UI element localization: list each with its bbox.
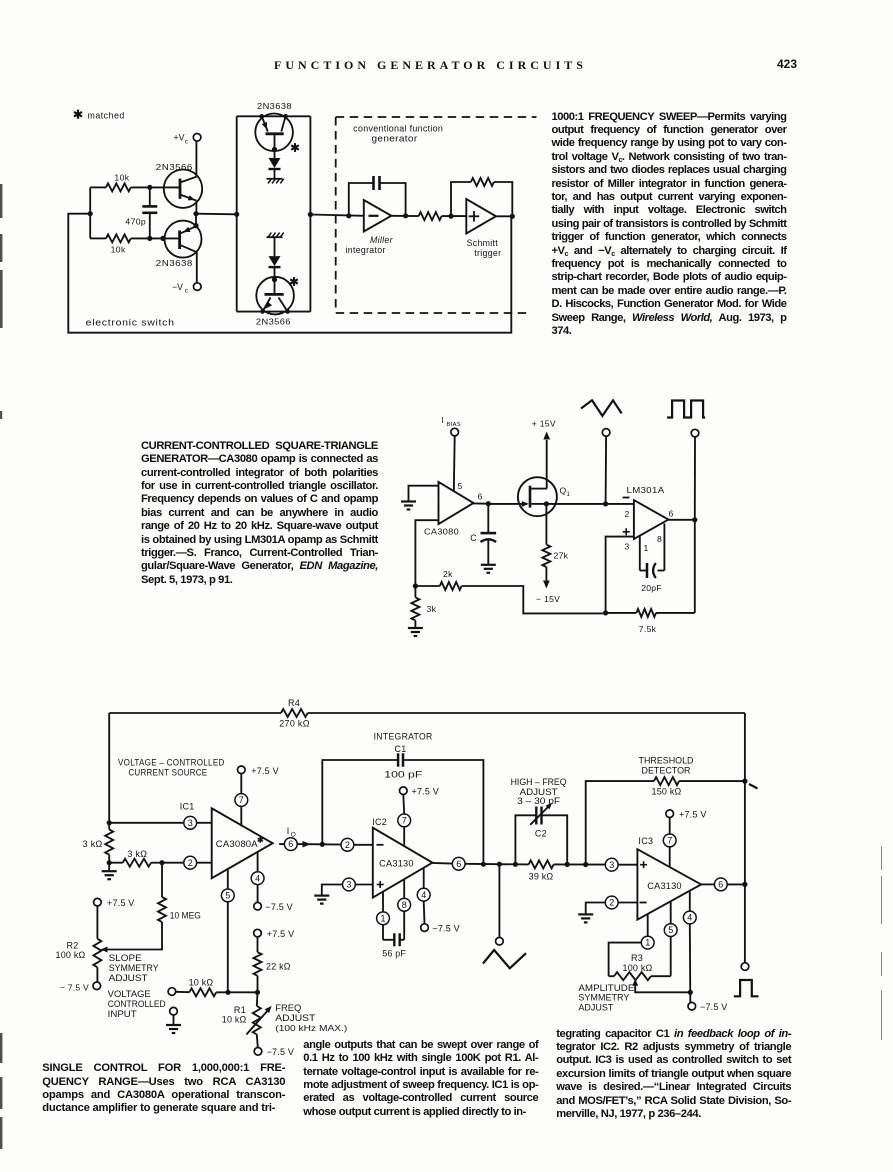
svg-text:22 kΩ: 22 kΩ <box>266 962 291 972</box>
waveform triangle glyph <box>581 400 622 416</box>
resistor 27k <box>545 504 547 545</box>
pin 8 IC2 <box>403 880 405 899</box>
svg-text:2: 2 <box>188 858 193 868</box>
capacitor C <box>487 504 489 533</box>
pin 5 IC1 <box>227 869 229 889</box>
svg-text:1: 1 <box>567 492 571 498</box>
supply +15V arrow <box>543 432 550 440</box>
svg-text:R1: R1 <box>234 1005 246 1015</box>
svg-text:−7.5 V: −7.5 V <box>267 1047 294 1057</box>
svg-text:56 pF: 56 pF <box>382 949 406 959</box>
potentiometer R1 10k freq adjust <box>256 992 259 1006</box>
terminal voltage input <box>168 988 176 996</box>
terminal I BIAS <box>451 428 459 436</box>
svg-text:ADJUST: ADJUST <box>578 1002 613 1012</box>
svg-text:(100 kHz MAX.): (100 kHz MAX.) <box>275 1023 347 1033</box>
svg-text:integrator: integrator <box>346 245 386 255</box>
svg-text:−V: −V <box>172 282 183 292</box>
svg-text:+7.5 V: +7.5 V <box>412 786 439 796</box>
wire pin5 <box>453 436 456 491</box>
svg-text:1: 1 <box>380 913 385 923</box>
transistor Q1 JFET <box>518 477 557 516</box>
svg-text:470p: 470p <box>125 217 146 227</box>
pin 7 IC3 <box>669 818 671 835</box>
svg-text:DETECTOR: DETECTOR <box>642 766 691 776</box>
svg-text:1: 1 <box>645 938 650 948</box>
wire pin3 input <box>606 537 634 613</box>
svg-text:R2: R2 <box>67 941 79 951</box>
svg-text:5: 5 <box>458 481 463 491</box>
svg-text:− 7.5 V: − 7.5 V <box>60 983 89 993</box>
svg-text:generator: generator <box>372 134 418 144</box>
terminal -Vc <box>194 283 202 291</box>
wire to function generator <box>310 215 363 216</box>
svg-text:7: 7 <box>667 836 672 846</box>
terminal -7.5V (R2 bottom) <box>93 982 101 990</box>
svg-text:c: c <box>185 288 189 295</box>
pin 7 IC2 <box>402 795 405 815</box>
svg-text:R4: R4 <box>288 698 300 708</box>
svg-text:HIGH – FREQ: HIGH – FREQ <box>511 777 567 787</box>
svg-text:6: 6 <box>456 859 461 869</box>
svg-text:CURRENT SOURCE: CURRENT SOURCE <box>128 767 207 777</box>
svg-text:matched: matched <box>88 111 125 121</box>
svg-text:6: 6 <box>669 509 674 519</box>
svg-text:+7.5 V: +7.5 V <box>267 929 294 939</box>
resistor interstage <box>391 215 418 217</box>
supply -15V arrow <box>545 567 547 581</box>
svg-text:FREQ: FREQ <box>275 1003 301 1013</box>
svg-text:R3: R3 <box>631 953 643 963</box>
svg-text:10 MEG: 10 MEG <box>170 911 201 921</box>
diode (bottom branch) <box>274 237 276 256</box>
star matched (bottom) <box>293 277 295 286</box>
resistor Schmitt feedback <box>451 182 471 216</box>
ground (IC2 pin3) <box>314 896 329 904</box>
svg-text:5: 5 <box>225 891 230 901</box>
op-amp Miller integrator <box>364 200 392 232</box>
svg-text:Q: Q <box>560 486 567 496</box>
resistor 2k <box>440 582 462 590</box>
svg-text:−7.5 V: −7.5 V <box>265 902 292 912</box>
wire source to LM301A <box>546 503 634 505</box>
pin 1 IC2 <box>382 892 384 912</box>
svg-text:+V: +V <box>174 133 185 143</box>
pin 3 IC1 <box>109 822 184 824</box>
ground (IC3 pin2) <box>578 914 593 922</box>
svg-text:INTEGRATOR: INTEGRATOR <box>374 732 433 742</box>
svg-text:C1: C1 <box>394 744 406 754</box>
wire right rail <box>744 713 746 963</box>
svg-text:I: I <box>442 416 444 425</box>
svg-text:IC2: IC2 <box>372 817 387 827</box>
svg-text:+ 15V: + 15V <box>532 419 556 429</box>
terminal +7.5V (22k) <box>254 929 262 937</box>
label matched note <box>77 110 79 119</box>
svg-text:Miller: Miller <box>370 235 394 245</box>
svg-text:6: 6 <box>288 839 293 849</box>
svg-text:CA3130: CA3130 <box>647 881 682 891</box>
wire diode-branch rectangle <box>237 115 311 117</box>
pin 2 IC1 <box>162 862 184 864</box>
svg-text:O: O <box>291 832 296 839</box>
svg-text:8: 8 <box>402 900 407 910</box>
wire inverting input to ground <box>409 486 439 501</box>
node IO output <box>279 843 284 845</box>
svg-text:3: 3 <box>609 860 614 870</box>
svg-text:2N3638: 2N3638 <box>257 101 292 111</box>
svg-text:INPUT: INPUT <box>108 1009 138 1019</box>
terminal ground stub <box>170 1007 178 1015</box>
pin 4 IC2 <box>423 868 425 888</box>
diode (top branch) <box>274 149 276 158</box>
terminal -7.5V (IC1 pin4) <box>254 902 262 910</box>
pin 7 IC1 <box>240 774 242 794</box>
svg-text:3: 3 <box>346 880 351 890</box>
node base-divider junction <box>88 211 93 216</box>
svg-text:150 kΩ: 150 kΩ <box>652 787 682 797</box>
terminal triangle output (IC2) <box>498 864 500 937</box>
terminal +7.5V (IC1 pin7) <box>238 766 246 774</box>
svg-text:conventional function: conventional function <box>353 124 443 134</box>
svg-text:BIAS: BIAS <box>447 422 461 428</box>
potentiometer R3 100k <box>609 975 614 977</box>
svg-text:100 kΩ: 100 kΩ <box>623 963 653 973</box>
op-amp IC2 CA3130 <box>373 828 433 898</box>
svg-text:ADJUST: ADJUST <box>275 1013 316 1023</box>
svg-text:− 15V: − 15V <box>536 594 560 604</box>
svg-text:Schmitt: Schmitt <box>467 238 499 248</box>
svg-text:SLOPE: SLOPE <box>109 953 142 963</box>
wire IC2 output run <box>499 863 528 865</box>
terminal square output <box>691 429 699 437</box>
svg-text:−7.5 V: −7.5 V <box>700 1002 727 1012</box>
resistor 39k <box>529 860 554 868</box>
terminal -7.5V (R1) <box>254 1048 262 1056</box>
waveform triangle glyph (c3) <box>483 950 526 968</box>
resistor 3k (vertical) <box>108 823 110 830</box>
svg-text:3k: 3k <box>427 604 437 614</box>
resistor 10k input <box>176 991 190 993</box>
terminal +7.5V (IC3 pin7) <box>666 810 674 818</box>
capacitor 470p <box>149 187 151 206</box>
ground (input stub) <box>166 1025 181 1033</box>
waveform square glyph <box>667 401 705 418</box>
svg-text:2N3638: 2N3638 <box>156 258 193 268</box>
transistor 2N3566 (upper left, NPN) <box>164 170 202 208</box>
waveform square glyph (c3) <box>734 980 759 996</box>
svg-text:4: 4 <box>421 890 426 900</box>
capacitor 20pF <box>639 536 641 571</box>
chassis ground (top branch) <box>267 178 283 180</box>
capacitor C2 3-30pF trimmer <box>515 815 536 864</box>
capacitor Miller feedback <box>349 183 374 216</box>
wire left feedback rail <box>108 713 110 823</box>
svg-text:−7.5 V: −7.5 V <box>432 923 459 933</box>
resistor 3k <box>414 586 416 597</box>
svg-text:C: C <box>470 533 477 543</box>
terminal -7.5V (IC2 pin4) <box>421 924 429 932</box>
svg-text:3: 3 <box>625 542 630 552</box>
resistor R4 270k feedback <box>109 712 281 714</box>
potentiometer R2 100k <box>96 906 98 939</box>
terminal square output (IC3) <box>741 963 749 971</box>
pin 1 IC3 <box>647 914 649 936</box>
svg-text:7.5k: 7.5k <box>639 624 657 634</box>
svg-text:6: 6 <box>718 880 723 890</box>
svg-text:100 kΩ: 100 kΩ <box>56 950 86 960</box>
chassis ground (bottom branch) <box>267 236 283 238</box>
svg-text:SYMMETRY: SYMMETRY <box>109 963 159 973</box>
svg-text:39 kΩ: 39 kΩ <box>529 872 554 882</box>
svg-text:3 – 30 pF: 3 – 30 pF <box>517 796 561 806</box>
op-amp U2 CA3080 <box>439 482 474 524</box>
svg-text:CA3080: CA3080 <box>424 527 459 537</box>
svg-text:CA3080A: CA3080A <box>216 839 258 849</box>
svg-text:3: 3 <box>188 818 193 828</box>
svg-text:270 kΩ: 270 kΩ <box>279 719 310 729</box>
ground (below C) <box>481 565 496 573</box>
transistor 2N3638 (top branch, rotated) <box>255 114 293 152</box>
ground (below 3k vert) <box>102 871 117 879</box>
pin 3 IC2 to ground <box>355 884 373 886</box>
svg-text:c: c <box>185 138 189 145</box>
wire electronic-switch loop (bottom/left) <box>68 214 511 333</box>
capacitor C1 100pF integrator <box>322 760 398 844</box>
svg-text:8: 8 <box>657 534 662 544</box>
terminal triangle output <box>602 429 610 437</box>
pin 3 IC3 <box>604 864 606 866</box>
svg-text:SYMMETRY: SYMMETRY <box>578 993 629 1003</box>
svg-text:CONTROLLED: CONTROLLED <box>108 999 166 1009</box>
resistor 150k threshold <box>586 781 654 864</box>
svg-text:2N3566: 2N3566 <box>156 162 193 172</box>
resistor 10 MEG <box>161 863 163 897</box>
svg-text:CA3130: CA3130 <box>379 859 414 869</box>
resistor 10k (lower) <box>90 237 106 239</box>
svg-text:4: 4 <box>255 873 260 883</box>
svg-text:+7.5 V: +7.5 V <box>251 766 278 776</box>
node output pin6 <box>474 502 489 504</box>
svg-text:ADJUST: ADJUST <box>109 973 149 983</box>
pin 2 IC3 to ground <box>618 902 637 904</box>
op-amp IC1 CA3080A <box>212 808 273 878</box>
svg-text:2: 2 <box>625 509 630 519</box>
svg-text:3 kΩ: 3 kΩ <box>127 849 147 859</box>
svg-text:2N3566: 2N3566 <box>256 317 291 327</box>
svg-text:IC3: IC3 <box>638 836 653 846</box>
svg-text:AMPLITUDE: AMPLITUDE <box>578 983 634 993</box>
svg-text:IC1: IC1 <box>180 802 195 812</box>
wire noninverting input <box>415 520 438 586</box>
svg-text:VOLTAGE: VOLTAGE <box>108 989 151 999</box>
op-amp Schmitt trigger <box>466 199 496 234</box>
capacitor 56pF <box>383 939 394 941</box>
ground (below 3k) <box>408 628 423 636</box>
pin 4 IC1 <box>257 853 259 872</box>
svg-text:7: 7 <box>239 795 244 805</box>
svg-text:5: 5 <box>668 925 673 935</box>
svg-text:C2: C2 <box>535 829 547 839</box>
svg-text:4: 4 <box>687 913 692 923</box>
wire feedback from 2k <box>415 585 439 587</box>
ground (CA3080 input) <box>401 502 416 510</box>
terminal -7.5V (IC3 pin4) <box>688 1002 696 1010</box>
wire gate <box>488 503 527 505</box>
svg-text:2: 2 <box>345 840 350 850</box>
resistor 22k <box>257 937 259 952</box>
terminal +7.5V (IC2 pin7) <box>400 787 408 795</box>
resistor 10k (upper) <box>90 186 106 188</box>
wire output node <box>668 519 694 521</box>
svg-text:7: 7 <box>402 816 407 826</box>
svg-text:6: 6 <box>478 492 483 502</box>
svg-text:VOLTAGE – CONTROLLED: VOLTAGE – CONTROLLED <box>118 757 225 767</box>
svg-text:LM301A: LM301A <box>627 485 665 495</box>
svg-text:+7.5 V: +7.5 V <box>107 898 134 908</box>
wire IO node to IC2, C1 tap <box>322 843 341 845</box>
resistor 7.5k <box>606 612 637 614</box>
terminal +7.5V (R2 top) <box>94 898 102 906</box>
op-amp IC3 CA3130 <box>637 849 701 920</box>
svg-text:100 pF: 100 pF <box>384 770 423 780</box>
dashed box conventional function generator <box>336 117 537 313</box>
svg-text:1: 1 <box>644 543 649 553</box>
terminal +Vc <box>193 134 201 142</box>
pin 6 IC3 output <box>701 883 714 885</box>
svg-text:2: 2 <box>609 898 614 908</box>
svg-text:electronic switch: electronic switch <box>86 318 175 328</box>
svg-text:2k: 2k <box>443 569 453 579</box>
op-amp U3 LM301A <box>634 500 669 539</box>
svg-text:10k: 10k <box>114 173 129 183</box>
svg-text:THRESHOLD: THRESHOLD <box>639 756 694 766</box>
pin 4 IC3 <box>689 891 691 911</box>
pin 6 IC2 output <box>432 862 452 865</box>
pin 5 IC3 <box>670 901 672 923</box>
svg-text:10k: 10k <box>111 245 126 255</box>
node charging wire <box>196 213 237 216</box>
transistor 2N3566 (bottom branch, rotated) <box>256 277 294 315</box>
svg-text:trigger: trigger <box>474 248 501 258</box>
resistor 3k (horizontal) <box>109 862 123 864</box>
svg-text:20pF: 20pF <box>641 583 661 593</box>
svg-text:+7.5 V: +7.5 V <box>679 809 706 819</box>
star matched (top) <box>294 143 296 152</box>
svg-text:10 kΩ: 10 kΩ <box>222 1015 247 1025</box>
svg-text:10 kΩ: 10 kΩ <box>189 978 214 988</box>
svg-text:3 kΩ: 3 kΩ <box>83 839 103 849</box>
svg-text:27k: 27k <box>554 551 569 561</box>
svg-text:I: I <box>287 826 290 836</box>
wire Schmitt output <box>496 215 512 217</box>
transistor 2N3638 (lower left, PNP) <box>165 221 202 258</box>
